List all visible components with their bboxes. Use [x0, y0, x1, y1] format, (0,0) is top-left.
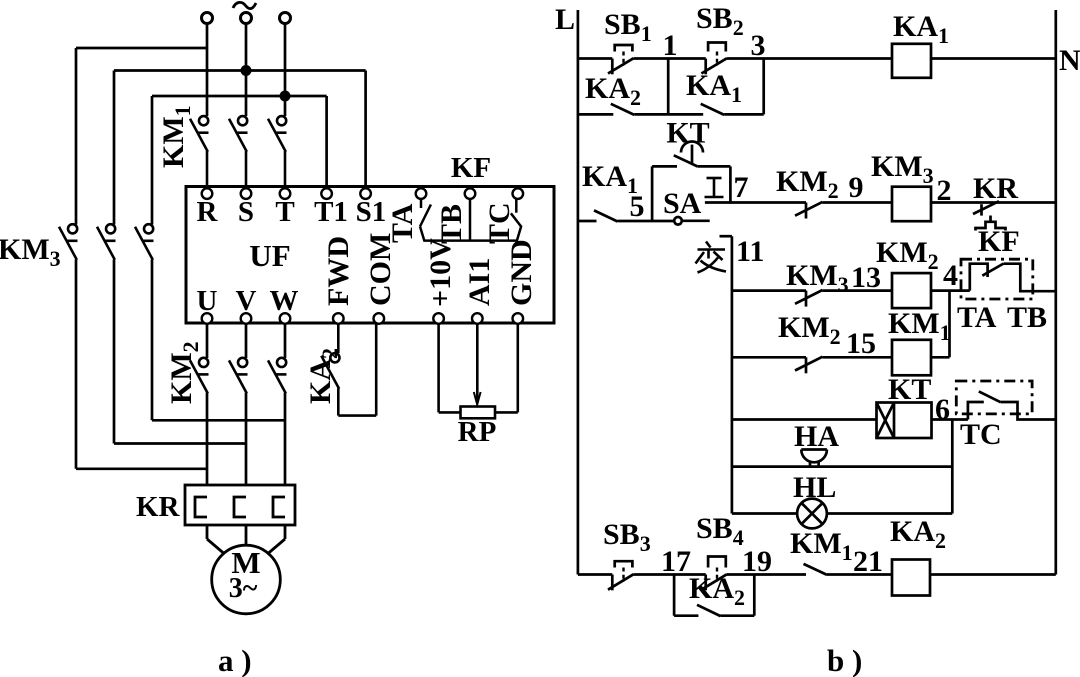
- svg-text:3: 3: [751, 29, 766, 62]
- svg-text:AI1: AI1: [463, 258, 496, 306]
- svg-text:21: 21: [853, 545, 883, 578]
- svg-text:KF: KF: [978, 225, 1020, 258]
- svg-text:11: 11: [736, 235, 764, 268]
- svg-text:19: 19: [742, 545, 772, 578]
- svg-text:2: 2: [937, 174, 952, 207]
- svg-text:b ): b ): [827, 643, 862, 677]
- svg-text:TC: TC: [483, 202, 516, 244]
- svg-text:15: 15: [846, 327, 876, 360]
- svg-text:KT: KT: [888, 373, 931, 406]
- svg-text:N: N: [1059, 44, 1080, 77]
- svg-text:+10V: +10V: [424, 238, 457, 307]
- svg-text:RP: RP: [458, 416, 497, 448]
- svg-text:S: S: [238, 196, 254, 228]
- svg-text:SA: SA: [663, 187, 702, 220]
- svg-text:17: 17: [661, 545, 691, 578]
- svg-text:1: 1: [663, 29, 678, 62]
- svg-text:TA: TA: [957, 301, 997, 334]
- svg-text:7: 7: [734, 171, 749, 204]
- svg-text:GND: GND: [505, 239, 538, 306]
- svg-text:KR: KR: [973, 172, 1018, 205]
- svg-text:HL: HL: [793, 471, 836, 504]
- svg-text:W: W: [270, 285, 299, 317]
- svg-text:S1: S1: [356, 196, 387, 228]
- svg-text:KF: KF: [451, 152, 491, 184]
- svg-text:TB: TB: [1007, 301, 1047, 334]
- svg-text:9: 9: [849, 171, 864, 204]
- svg-text:6: 6: [935, 393, 950, 426]
- svg-text:T1: T1: [314, 196, 348, 228]
- svg-text:4: 4: [943, 259, 958, 292]
- svg-text:TB: TB: [435, 204, 468, 244]
- svg-text:3~: 3~: [229, 573, 258, 604]
- svg-text:UF: UF: [249, 238, 290, 273]
- svg-text:a ): a ): [218, 643, 252, 677]
- svg-text:TC: TC: [960, 418, 1002, 451]
- svg-text:5: 5: [630, 190, 645, 223]
- svg-text:T: T: [275, 196, 294, 228]
- svg-text:KT: KT: [666, 117, 709, 150]
- svg-text:L: L: [555, 3, 575, 36]
- svg-text:V: V: [236, 285, 257, 317]
- svg-text:KR: KR: [136, 491, 181, 523]
- svg-text:R: R: [197, 196, 219, 228]
- svg-text:FWD: FWD: [322, 236, 355, 306]
- svg-text:COM: COM: [364, 233, 397, 306]
- svg-text:U: U: [197, 285, 218, 317]
- svg-text:HA: HA: [794, 420, 839, 453]
